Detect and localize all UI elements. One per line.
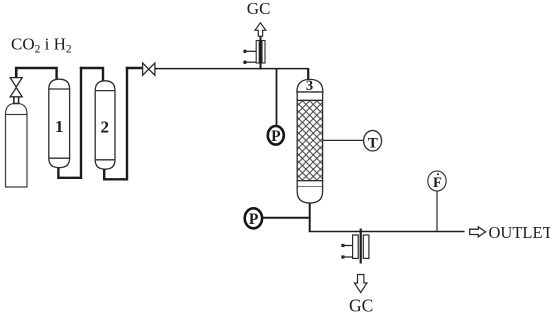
vessel 2: [95, 81, 115, 169]
wire gauge P2 to reactor outlet: [262, 217, 310, 219]
cylinder neck: [14, 97, 19, 104]
reactor bottom dome: [297, 187, 322, 203]
sampling valve S1 right port rect: [262, 41, 265, 64]
arrow to GC (hollow, up): [255, 23, 266, 36]
wire stub into vessel 1 top: [55, 67, 57, 81]
svg-text:P: P: [271, 128, 281, 145]
arrow to GC (hollow, down): [354, 275, 367, 293]
svg-text:GC: GC: [349, 296, 373, 316]
gas cylinder: [6, 103, 28, 187]
wire outlet line: [309, 231, 465, 233]
wire reactor outlet stub: [309, 203, 311, 232]
wire vessel 1 bottom loop to riser: [58, 67, 81, 178]
sampling valve S1 tap 1: [245, 50, 256, 52]
reactor packed bed: [297, 100, 322, 180]
svg-text:CO2 i H2: CO2 i H2: [11, 35, 72, 56]
svg-text:F: F: [433, 175, 442, 191]
svg-text:GC: GC: [247, 0, 271, 18]
wire reactor to gauge T: [323, 139, 364, 141]
wire valve to reactor inlet: [155, 68, 308, 70]
sampling valve S1 tap 2: [245, 61, 256, 63]
wire valve to top line: [15, 67, 18, 78]
sampling valve S2 center bar: [360, 229, 362, 264]
svg-text:OUTLET: OUTLET: [489, 223, 550, 242]
wire riser to shutoff valve: [126, 67, 143, 69]
cylinder valve V1: [10, 78, 22, 97]
gauge P2: [245, 208, 262, 228]
sampling valve S2 tap 1: [343, 245, 353, 247]
sampling valve S2 right port rect: [363, 235, 369, 258]
wire reactor inlet stub: [307, 68, 309, 81]
svg-text:P: P: [249, 211, 259, 228]
sampling valve S1 center bar: [260, 37, 262, 70]
vessel 1: [49, 79, 70, 167]
gauge P1: [268, 126, 284, 145]
wire top line riser to vessel 2: [80, 68, 103, 82]
wire riser to gauge P1: [276, 69, 278, 126]
wire top line cylinder to vessel 1: [15, 67, 57, 69]
sampling valve S2 tap 2: [343, 256, 353, 258]
arrow OUTLET (hollow, right): [470, 227, 486, 237]
reactor bottom band: [297, 181, 322, 187]
reactor 3: [297, 79, 323, 100]
wire gauge F to outlet line: [436, 191, 438, 232]
gauge F: [428, 171, 446, 191]
svg-text:2: 2: [101, 117, 110, 136]
svg-text:T: T: [368, 135, 378, 151]
gauge T: [364, 131, 382, 151]
svg-text:1: 1: [55, 117, 64, 136]
svg-text:3: 3: [306, 78, 313, 94]
shutoff valve V2 (bowtie): [143, 63, 155, 75]
sampling valve S1 left port rect: [256, 41, 259, 64]
sampling valve S2 left port rect: [353, 235, 359, 258]
wire vessel 2 bottom loop to riser: [104, 67, 127, 180]
